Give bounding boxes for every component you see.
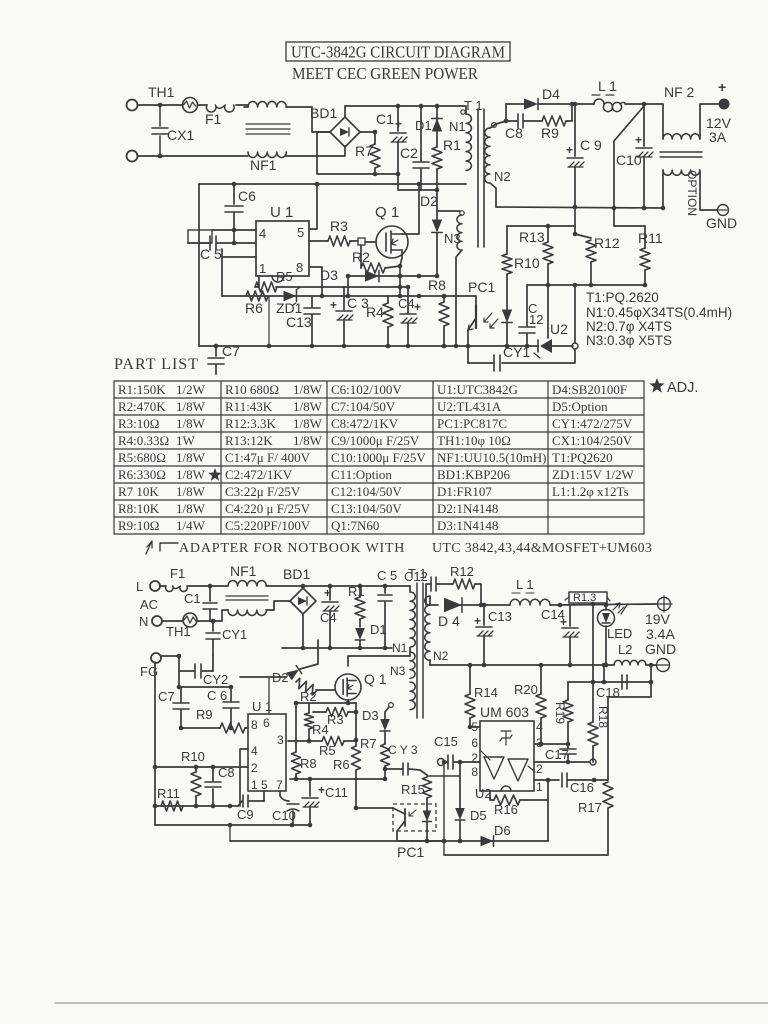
svg-text:C17: C17: [545, 747, 569, 762]
UM603 notch: [501, 786, 511, 791]
wire bridge right to R7: [360, 131, 375, 133]
svg-text:R11: R11: [638, 230, 663, 246]
svg-text:R5: R5: [276, 269, 293, 284]
bottom secondary group: [397, 564, 676, 855]
wire: [436, 190, 438, 211]
diagonal wire from L1 node: [614, 106, 645, 226]
svg-text:+: +: [474, 614, 481, 628]
resistor R14b: [469, 665, 471, 694]
T1 secondary N2: [425, 596, 430, 660]
wire N3 bottom: [456, 250, 462, 344]
svg-text:R17: R17: [578, 800, 602, 815]
wire: [179, 656, 194, 671]
svg-text:C15: C15: [434, 734, 458, 749]
svg-text:C11: C11: [325, 785, 348, 800]
wire pin5 row: [470, 726, 480, 728]
inductor L1b: [510, 599, 550, 605]
svg-text:+: +: [635, 133, 642, 147]
svg-text:C12:104/50V: C12:104/50V: [331, 484, 402, 499]
svg-text:R11: R11: [157, 786, 180, 801]
svg-text:NF 2: NF 2: [664, 84, 695, 100]
drain wire: [348, 648, 410, 666]
inductor L2: [614, 660, 646, 665]
svg-text:C4:220 μ F/25V: C4:220 μ F/25V: [225, 501, 311, 516]
svg-text:N2: N2: [494, 169, 511, 184]
svg-text:R1: R1: [348, 584, 365, 599]
pin5 wire: [309, 184, 317, 229]
bridge top stub: [302, 586, 304, 588]
diode D4b: [444, 598, 462, 612]
svg-text:5: 5: [471, 720, 478, 734]
svg-text:BD1:KBP206: BD1:KBP206: [437, 467, 510, 482]
row R11: [155, 805, 238, 807]
svg-text:+: +: [330, 298, 337, 312]
svg-text:GND: GND: [706, 215, 737, 231]
wire: [365, 241, 376, 243]
terminal C15: [438, 759, 445, 766]
svg-text:C1: C1: [376, 111, 394, 127]
svg-text:C2: C2: [400, 145, 418, 161]
capacitor C12: [526, 285, 528, 326]
LED arrows: [613, 603, 620, 610]
source row: [296, 702, 356, 704]
U1 notch: [272, 276, 284, 282]
svg-text:Q 1: Q 1: [375, 204, 399, 221]
resistor R8b: [295, 703, 297, 752]
capacitor CY1: [212, 621, 214, 631]
svg-text:6: 6: [263, 716, 270, 730]
wire: [568, 779, 608, 781]
svg-text:U1:UTC3842G: U1:UTC3842G: [437, 382, 518, 397]
svg-text:ADJ.: ADJ.: [667, 380, 698, 396]
junction C2 rail: [419, 104, 424, 109]
wire NF1 to bridge bottom: [286, 146, 345, 156]
svg-text:U2: U2: [550, 321, 568, 337]
svg-text:BD1: BD1: [283, 566, 310, 582]
wire: [468, 362, 494, 364]
row D3: [348, 275, 437, 277]
svg-text:R8: R8: [428, 277, 446, 293]
primary ground bus: [282, 647, 392, 649]
wire: [217, 242, 256, 244]
svg-text:D4: D4: [542, 86, 560, 102]
resistor R11: [644, 226, 646, 248]
resistor R19: [567, 682, 569, 700]
svg-text:R10: R10: [181, 749, 205, 764]
svg-text:T1:PQ2620: T1:PQ2620: [552, 450, 613, 465]
rail step down: [229, 825, 231, 841]
svg-text:PC1: PC1: [468, 279, 495, 295]
svg-text:D3: D3: [320, 267, 338, 283]
resistor R11b: [161, 801, 183, 811]
svg-text:C2:472/1KV: C2:472/1KV: [225, 467, 293, 482]
svg-text:C13: C13: [488, 609, 512, 624]
wire: [409, 769, 427, 775]
svg-text:R12: R12: [450, 564, 474, 579]
svg-text:R9: R9: [541, 125, 559, 141]
wire C18 row: [568, 681, 651, 683]
svg-text:R7: R7: [360, 736, 377, 751]
wire NF1 out bottom: [266, 601, 290, 610]
junctions on bus: [214, 344, 219, 349]
svg-text:U2:TL431A: U2:TL431A: [437, 399, 502, 414]
wire N2 return: [490, 183, 496, 207]
output wire: [560, 604, 656, 605]
capacitor C6: [233, 184, 235, 204]
zener ZD1: [284, 291, 297, 301]
svg-text:R3:10Ω: R3:10Ω: [118, 416, 159, 431]
svg-text:NF1:UU10.5(10mH): NF1:UU10.5(10mH): [437, 450, 546, 465]
svg-text:N3:0.3φ X5TS: N3:0.3φ X5TS: [586, 333, 672, 348]
wire: [506, 103, 524, 105]
svg-text:D2: D2: [420, 193, 438, 209]
resistor R7: [374, 132, 376, 144]
svg-text:3: 3: [277, 733, 284, 747]
svg-text:R10: R10: [514, 255, 540, 271]
svg-text:1: 1: [251, 778, 258, 792]
NF2 core: [660, 151, 702, 153]
resistor R1: [436, 133, 438, 147]
svg-text:MEET CEC GREEN POWER: MEET CEC GREEN POWER: [292, 64, 478, 83]
svg-text:C14: C14: [541, 607, 565, 622]
svg-text:C10: C10: [272, 808, 296, 823]
svg-text:C7:104/50V: C7:104/50V: [331, 399, 396, 414]
capacitor C6b: [230, 687, 232, 701]
drain rail: [199, 183, 466, 185]
terminal input bottom: [127, 151, 138, 162]
svg-text:C13: C13: [286, 314, 312, 330]
svg-text:C4: C4: [320, 610, 337, 625]
R17 feed: [608, 682, 651, 780]
pin3 row: [534, 743, 568, 745]
vertical: [574, 285, 576, 343]
svg-text:R9:10Ω: R9:10Ω: [118, 518, 159, 533]
svg-text:5: 5: [297, 225, 304, 240]
NF2 top coil: [663, 134, 700, 139]
secondary ground bus: [496, 207, 663, 208]
wire: [538, 103, 572, 105]
wire N2 top: [490, 121, 506, 128]
winding N3: [457, 215, 462, 250]
wire feedback row: [527, 284, 645, 286]
capacitor C11 electrolytic: [309, 779, 311, 796]
capacitor C10 electrolytic: [643, 104, 645, 146]
resistor R20: [540, 665, 542, 694]
svg-text:N: N: [139, 614, 148, 629]
svg-text:2: 2: [251, 761, 258, 775]
svg-text:3.4A: 3.4A: [646, 626, 675, 642]
svg-text:R7: R7: [355, 143, 373, 159]
row pin2: [155, 766, 248, 768]
wire: [454, 761, 480, 763]
svg-text:R11:43K: R11:43K: [225, 399, 273, 414]
resistor R15: [423, 777, 432, 798]
capacitor C9 electrolytic: [574, 104, 576, 156]
capacitor C8: [517, 114, 519, 128]
svg-text:C6:102/100V: C6:102/100V: [331, 382, 402, 397]
svg-text:Q1:7N60: Q1:7N60: [331, 518, 379, 533]
svg-text:R14: R14: [474, 685, 498, 700]
UM603 box: [480, 721, 534, 791]
wire C5 down: [221, 257, 223, 296]
svg-text:D1: D1: [370, 622, 387, 637]
svg-text:D 4: D 4: [438, 613, 460, 629]
drain wire: [402, 184, 419, 234]
left vertical: [198, 184, 200, 346]
bottom outer rail: [444, 854, 608, 856]
capacitor C18: [621, 675, 623, 689]
svg-text:R2:470K: R2:470K: [118, 399, 166, 414]
svg-text:N2: N2: [433, 649, 449, 663]
wire 779: [290, 778, 385, 780]
wire up to diode row: [505, 104, 507, 121]
resistor R12: [575, 234, 591, 238]
transformer T1 primary coil: [466, 114, 471, 170]
junction: [290, 823, 295, 828]
svg-text:R2: R2: [300, 689, 317, 704]
junction: [442, 839, 447, 844]
thermistor TH1: [183, 98, 198, 113]
U2 symbol: [540, 339, 552, 353]
svg-text:R3: R3: [330, 218, 348, 234]
output terminal 19V: [658, 598, 671, 611]
UM603 tr2: [508, 759, 528, 781]
capacitor C16: [561, 773, 563, 787]
svg-text:UTC 3842,43,44&MOSFET+UM603: UTC 3842,43,44&MOSFET+UM603: [432, 541, 652, 556]
svg-text:R6: R6: [245, 300, 263, 316]
svg-text:3: 3: [536, 736, 543, 750]
resistor R3b: [313, 711, 326, 713]
gate wire: [316, 689, 335, 691]
T1 secondary N2 coil: [485, 128, 490, 183]
dot: [406, 285, 411, 290]
resistor R6b: [352, 746, 361, 770]
junction: [602, 663, 607, 668]
svg-text:1/8W: 1/8W: [176, 399, 206, 414]
output terminal 12V: [719, 99, 730, 110]
svg-text:R12: R12: [594, 235, 620, 251]
NF2 filter: [662, 104, 664, 139]
svg-text:4: 4: [536, 720, 543, 734]
svg-text:N1: N1: [392, 641, 408, 655]
capacitor C8b: [212, 767, 214, 781]
svg-text:1: 1: [536, 780, 543, 794]
svg-text:C13:104/50V: C13:104/50V: [331, 501, 402, 516]
capacitor C5: [209, 236, 211, 250]
svg-text:19V: 19V: [645, 611, 671, 627]
wire NF2 left bottom: [662, 170, 664, 208]
svg-text:R1: R1: [443, 137, 461, 153]
pin1 row: [534, 779, 559, 781]
svg-text:1/8W: 1/8W: [293, 399, 323, 414]
svg-text:4: 4: [251, 744, 258, 758]
svg-text:R13:12K: R13:12K: [225, 433, 273, 448]
resistor R6: [246, 291, 268, 301]
PC1b LED: [426, 804, 428, 812]
IC U1b box: [248, 714, 286, 791]
fuse F1: [160, 585, 166, 587]
svg-text:TH1: TH1: [148, 84, 175, 100]
capacitor CX1: [159, 105, 161, 126]
junction: [208, 584, 213, 589]
wire bridge top to DC rail: [344, 106, 346, 117]
wire: [475, 584, 481, 605]
svg-text:C6: C6: [238, 188, 256, 204]
svg-text:R15: R15: [401, 782, 425, 797]
wire: [437, 583, 453, 585]
small box component: [188, 230, 212, 243]
junction: [373, 172, 378, 177]
NF1 bottom coil: [222, 610, 228, 621]
wire NF2 right top: [700, 104, 718, 139]
wire N: [210, 620, 222, 622]
svg-text:U2: U2: [475, 786, 492, 801]
svg-text:R19: R19: [553, 702, 567, 724]
snubber branch C8 R9: [506, 120, 517, 122]
wire: [550, 604, 560, 606]
svg-text:2: 2: [536, 762, 543, 776]
svg-text:C7: C7: [222, 343, 240, 359]
resistor R2: [360, 245, 362, 268]
diode D3: [365, 270, 379, 281]
wire N2 bottom: [429, 660, 431, 665]
diode D2: [436, 211, 438, 219]
svg-text:1/8W: 1/8W: [176, 416, 206, 431]
wire: [385, 266, 400, 268]
GND terminal: [718, 205, 729, 216]
svg-text:CY2: CY2: [203, 672, 228, 687]
junction: [573, 102, 578, 107]
wire N2 top: [430, 596, 438, 605]
T1 primary coil: [410, 592, 415, 647]
wire: [398, 174, 437, 190]
pin1 wire: [258, 276, 260, 287]
wire: [572, 103, 594, 105]
capacitor C13b: [483, 605, 485, 625]
svg-text:1/8W: 1/8W: [176, 467, 206, 482]
resistor R5 zigzag: [255, 282, 277, 292]
adapter heading arrow: [146, 541, 152, 554]
wire R15 to D5 node: [427, 775, 460, 777]
svg-text:L 1: L 1: [598, 78, 617, 94]
junction: [301, 646, 306, 651]
svg-text:C5:220PF/100V: C5:220PF/100V: [225, 518, 311, 533]
PC1 emitter: [468, 318, 476, 330]
open node: [572, 343, 578, 349]
terminal L: [150, 581, 160, 591]
junction: [570, 102, 575, 107]
T1 core: [416, 583, 418, 718]
capacitor C9b: [238, 801, 242, 806]
wire divider top: [507, 225, 575, 227]
FG wire: [161, 655, 179, 657]
resistor R4b: [308, 703, 310, 713]
svg-text:D2:1N4148: D2:1N4148: [437, 501, 498, 516]
svg-text:1/8W: 1/8W: [293, 433, 323, 448]
svg-text:TH1:10φ 10Ω: TH1:10φ 10Ω: [437, 433, 511, 448]
MOSFET Q1: [376, 226, 408, 258]
row R5 out: [276, 286, 408, 288]
wire: [445, 761, 448, 763]
svg-text:PART LIST: PART LIST: [114, 356, 199, 373]
svg-text:C 5: C 5: [200, 246, 222, 262]
svg-text:U 1: U 1: [270, 204, 293, 221]
svg-text:1/8W: 1/8W: [176, 501, 206, 516]
terminal FG: [151, 653, 161, 663]
NF1 core: [246, 123, 290, 125]
Q1 source stub: [347, 700, 349, 703]
bridge rectifier BD1: [330, 117, 360, 147]
capacitor C15: [447, 755, 449, 769]
svg-text:CX1: CX1: [167, 127, 194, 143]
wire: [138, 104, 182, 106]
feedback divider vertical: [592, 604, 594, 722]
svg-text:GND: GND: [645, 641, 676, 657]
diode D3b: [384, 712, 386, 719]
terminal N: [152, 616, 162, 626]
svg-text:C Y 3: C Y 3: [388, 743, 418, 757]
diode D2: [286, 666, 301, 681]
svg-text:Q 1: Q 1: [364, 671, 387, 687]
resistor R3: [309, 240, 328, 242]
wire NF1 out top: [266, 585, 410, 587]
fuse F1: [206, 105, 234, 112]
svg-text:D5: D5: [470, 808, 487, 823]
svg-text:NF1: NF1: [230, 563, 257, 579]
inductor L1: [594, 99, 604, 104]
svg-text:6: 6: [471, 736, 478, 750]
svg-text:2: 2: [471, 751, 478, 765]
capacitor C7b: [180, 687, 182, 702]
capacitor CY2: [194, 664, 196, 678]
resistor R17: [603, 782, 613, 808]
lower rail: [230, 840, 444, 842]
svg-text:C1: C1: [184, 591, 201, 606]
svg-text:F1: F1: [205, 111, 222, 127]
svg-text:R5: R5: [319, 743, 336, 758]
wire R13 to U2: [547, 285, 549, 338]
junction: [612, 206, 617, 211]
svg-text:PC1:PC817C: PC1:PC817C: [437, 416, 507, 431]
wire bridge left loop: [317, 132, 398, 174]
resistor R1: [359, 586, 361, 597]
wire: [574, 207, 576, 234]
svg-text:1/2W: 1/2W: [176, 382, 206, 397]
svg-text:R6: R6: [333, 757, 350, 772]
top circuit group: [127, 78, 738, 374]
svg-text:+: +: [566, 143, 573, 157]
svg-text:D6: D6: [494, 823, 511, 838]
pin3 wire: [288, 740, 309, 742]
diode D4: [524, 98, 538, 109]
capacitor C14: [569, 605, 571, 626]
svg-text:LED: LED: [607, 626, 632, 641]
PC1 LED diode: [502, 310, 512, 323]
capacitor C1 electrolytic: [397, 106, 399, 131]
wire 687: [178, 671, 180, 687]
svg-text:R6:330Ω: R6:330Ω: [118, 467, 166, 482]
UM603 tr1: [484, 757, 504, 779]
wire: [524, 120, 542, 122]
svg-text:T 1: T 1: [464, 98, 483, 113]
resistor R2 diag: [294, 677, 318, 695]
wire rail to primary: [409, 586, 411, 592]
GND terminal: [657, 659, 670, 672]
svg-text:L1:1.2φ x12Ts: L1:1.2φ x12Ts: [552, 484, 629, 499]
pin2 right row: [534, 761, 590, 763]
svg-text:C12: C12: [404, 569, 428, 584]
capacitor C4 electrolytic: [329, 586, 331, 600]
